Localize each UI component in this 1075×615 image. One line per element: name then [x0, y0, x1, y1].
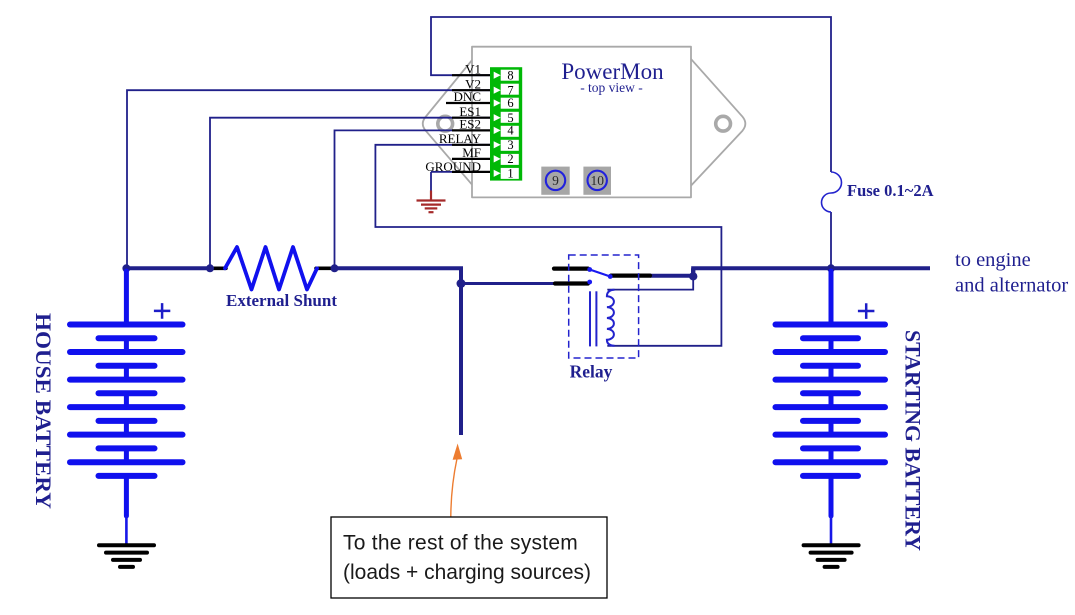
svg-text:2: 2: [507, 152, 513, 166]
svg-text:Relay: Relay: [570, 361, 613, 381]
svg-text:V1: V1: [465, 61, 481, 76]
svg-text:10: 10: [590, 173, 604, 188]
svg-text:9: 9: [552, 173, 559, 188]
svg-text:Fuse 0.1~2A: Fuse 0.1~2A: [847, 181, 934, 200]
svg-text:MF: MF: [462, 145, 481, 160]
svg-text:to engine: to engine: [955, 249, 1031, 271]
svg-text:4: 4: [507, 124, 514, 138]
svg-text:1: 1: [507, 167, 513, 181]
svg-text:STARTING BATTERY: STARTING BATTERY: [901, 330, 926, 551]
svg-text:HOUSE BATTERY: HOUSE BATTERY: [31, 313, 56, 509]
svg-text:ES2: ES2: [459, 117, 481, 132]
svg-text:To the rest of the system: To the rest of the system: [343, 532, 578, 555]
svg-text:GROUND: GROUND: [425, 159, 481, 174]
svg-text:6: 6: [507, 96, 513, 110]
svg-text:RELAY: RELAY: [439, 131, 482, 146]
svg-text:and alternator: and alternator: [955, 275, 1068, 297]
svg-text:(loads + charging sources): (loads + charging sources): [343, 561, 591, 584]
svg-text:8: 8: [507, 68, 513, 82]
svg-text:- top view -: - top view -: [580, 80, 643, 95]
svg-text:DNC: DNC: [454, 89, 481, 104]
svg-text:3: 3: [507, 138, 513, 152]
svg-text:External Shunt: External Shunt: [226, 291, 337, 310]
